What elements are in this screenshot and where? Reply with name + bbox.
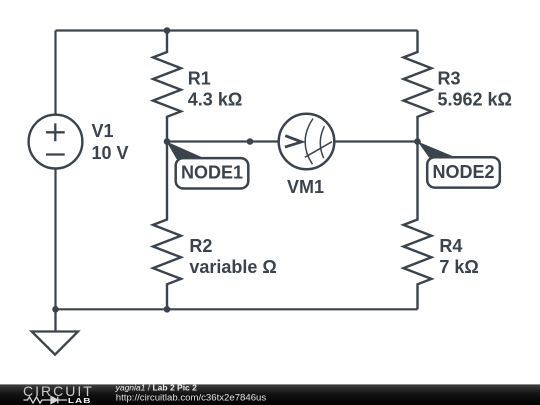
junction dot NODE1 (164, 138, 171, 145)
junction dot VM1 left terminal (247, 138, 254, 145)
svg-text:VM1: VM1 (287, 177, 324, 197)
voltage source V1 circle (29, 115, 83, 169)
junction dot R2 bottom (164, 306, 171, 313)
svg-text:R1: R1 (188, 68, 211, 88)
wire left branch upper (54, 31, 56, 115)
voltmeter VM1 circle (279, 114, 335, 170)
wire middle left (NODE1 to VM1) (167, 140, 279, 142)
svg-text:LAB: LAB (68, 396, 92, 404)
wire middle right (VM1 to NODE2) (334, 140, 418, 142)
VM1 chevron (285, 136, 302, 147)
svg-text:http://circuitlab.com/c36tx2e7: http://circuitlab.com/c36tx2e7846us (116, 393, 267, 404)
svg-text:4.3 kΩ: 4.3 kΩ (188, 90, 242, 110)
svg-text:7 kΩ: 7 kΩ (439, 257, 478, 277)
CircuitLab logo zigzag wire (24, 397, 68, 403)
wire top rail (56, 29, 418, 31)
V1 minus sign (46, 153, 65, 155)
svg-text:R3: R3 (438, 68, 461, 88)
node NODE2 callout pointer (418, 142, 456, 158)
resistor R3 (404, 31, 432, 142)
svg-text:10 V: 10 V (92, 143, 129, 163)
node NODE1 callout box (176, 158, 249, 188)
resistor R2 (153, 142, 181, 310)
svg-text:5.962 kΩ: 5.962 kΩ (438, 90, 513, 110)
svg-text:NODE1: NODE1 (181, 163, 243, 183)
svg-text:variable Ω: variable Ω (189, 257, 276, 277)
wire left branch lower (54, 168, 56, 309)
footer bar (0, 384, 540, 405)
svg-text:yagnia1 / Lab 2 Pic 2: yagnia1 / Lab 2 Pic 2 (115, 382, 198, 392)
resistor R4 (404, 142, 432, 310)
V1 plus sign (46, 123, 65, 141)
svg-text:NODE2: NODE2 (432, 162, 494, 182)
node NODE1 callout pointer (167, 142, 207, 160)
ground (32, 309, 78, 354)
junction dot R1 top (164, 27, 171, 34)
VM1 meter arc small (320, 126, 324, 158)
VM1 needle (305, 142, 332, 158)
svg-text:V1: V1 (92, 121, 114, 141)
node NODE2 callout box (427, 157, 500, 187)
junction dot NODE2 (414, 138, 421, 145)
resistor R1 (153, 31, 181, 142)
CircuitLab logo diode (51, 397, 58, 404)
VM1 meter arc large (305, 119, 313, 165)
svg-text:R2: R2 (189, 236, 212, 256)
junction dot ground (52, 306, 59, 313)
wire bottom rail (56, 308, 418, 310)
svg-text:R4: R4 (439, 236, 462, 256)
